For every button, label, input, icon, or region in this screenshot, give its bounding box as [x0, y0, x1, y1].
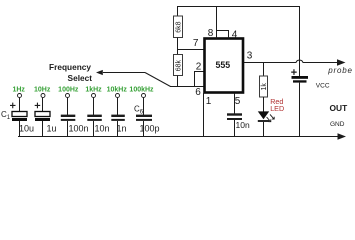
svg-text:100kHz: 100kHz — [129, 87, 154, 94]
wire pins 2-6 net — [170, 86, 205, 88]
svg-text:100p: 100p — [140, 124, 160, 134]
wire VCC top rail — [177, 7, 300, 77]
svg-text:555: 555 — [215, 60, 230, 70]
node 100kHz terminal — [129, 87, 154, 116]
wire pin 8 — [216, 7, 218, 39]
svg-text:1kHz: 1kHz — [85, 87, 102, 94]
capacitor C5 1n — [111, 116, 126, 137]
resistor R1 6k8 — [174, 7, 183, 51]
svg-text:Select: Select — [68, 73, 93, 83]
probe arrow — [337, 59, 346, 65]
resistor R3 1k — [260, 63, 269, 113]
capacitor C7 supply electrolytic — [291, 69, 308, 137]
node 10kHz terminal — [107, 87, 128, 116]
node 10Hz terminal — [34, 87, 51, 112]
svg-text:Frequency: Frequency — [49, 62, 91, 72]
wire pin 1 to ground — [203, 93, 205, 137]
svg-text:10n: 10n — [95, 124, 110, 134]
svg-text:100n: 100n — [69, 124, 89, 134]
wire pin 5 — [234, 93, 236, 114]
svg-text:6k8: 6k8 — [176, 21, 183, 32]
capacitor C3 100n — [61, 116, 89, 137]
svg-text:VCC: VCC — [316, 82, 330, 89]
svg-text:8: 8 — [208, 28, 214, 39]
pin 1 label — [206, 96, 212, 107]
resistor R2 68k — [174, 50, 183, 88]
svg-text:5: 5 — [235, 96, 241, 107]
svg-text:100Hz: 100Hz — [58, 87, 79, 94]
label GND — [330, 121, 345, 128]
svg-text:OUT: OUT — [330, 103, 349, 113]
label OUT — [330, 103, 349, 113]
svg-text:probe: probe — [327, 66, 352, 75]
switch wiper arrow (frequency select) — [96, 70, 171, 87]
svg-text:10kHz: 10kHz — [107, 87, 128, 94]
pin 2 label — [196, 61, 202, 72]
svg-text:68k: 68k — [176, 60, 183, 72]
capacitor C2 1u — [35, 103, 57, 137]
label probe — [327, 66, 352, 75]
svg-text:3: 3 — [247, 50, 253, 61]
svg-text:GND: GND — [330, 121, 345, 128]
node 1kHz terminal — [85, 87, 102, 116]
pin 5 label — [235, 96, 241, 107]
svg-text:1u: 1u — [47, 124, 57, 134]
wire ground rail — [18, 136, 339, 138]
capacitor C4 10n — [87, 116, 109, 137]
svg-text:1n: 1n — [117, 124, 127, 134]
svg-text:6: 6 — [195, 87, 201, 98]
pin 7 label — [193, 38, 199, 49]
svg-text:10n: 10n — [236, 120, 250, 130]
pin 3 label — [247, 50, 253, 61]
pin 4 label — [232, 30, 238, 41]
svg-text:LED: LED — [270, 104, 284, 113]
svg-text:10u: 10u — [19, 124, 34, 134]
ground arrow — [338, 133, 347, 139]
svg-text:1Hz: 1Hz — [12, 87, 25, 94]
pin 8 label — [208, 28, 214, 39]
wire pin7 net — [177, 49, 205, 51]
wire output pin3 with hop over vcc wire — [244, 60, 339, 62]
capacitor C6 100p — [134, 105, 160, 138]
pin 6 label — [195, 87, 201, 98]
capacitor C1 10u — [1, 103, 34, 137]
label Frequency Select — [49, 62, 92, 83]
label Red LED — [270, 97, 284, 113]
capacitor 10n on pin 5 — [227, 115, 250, 138]
svg-text:7: 7 — [193, 38, 199, 49]
LED D1 red — [258, 111, 274, 137]
svg-text:1k: 1k — [261, 83, 268, 91]
node 1Hz terminal — [12, 87, 25, 112]
svg-text:4: 4 — [232, 30, 238, 41]
svg-text:1: 1 — [206, 96, 212, 107]
wire pin 4 branch — [217, 31, 229, 39]
label VCC — [316, 82, 330, 89]
svg-text:10Hz: 10Hz — [34, 87, 51, 94]
IC U1 555 timer — [205, 39, 244, 93]
wire pin2 jog — [195, 72, 205, 88]
node 100Hz terminal — [58, 87, 79, 116]
svg-text:2: 2 — [196, 61, 202, 72]
